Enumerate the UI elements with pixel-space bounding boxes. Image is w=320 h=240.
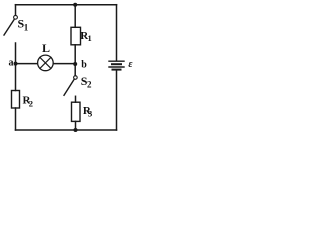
battery cell plate long top — [109, 60, 124, 62]
switch S1 pivot circle — [14, 15, 18, 19]
label L — [42, 41, 50, 55]
node b dot — [73, 62, 77, 66]
lamp L circle — [38, 55, 54, 71]
wire bottom — [16, 129, 117, 131]
wire top — [16, 4, 117, 6]
wire left middle (S1 contact to R2) — [15, 43, 17, 91]
label R3 — [83, 105, 92, 119]
resistor R3 — [72, 102, 81, 121]
svg-text:2: 2 — [87, 79, 92, 89]
svg-text:1: 1 — [88, 33, 92, 43]
wire horizontal lamp to node b — [54, 63, 76, 65]
wire right lower — [116, 71, 118, 131]
battery cell plate short thick upper — [112, 63, 121, 65]
wire R1 to node b to S2 — [74, 45, 76, 76]
label node a — [9, 57, 14, 68]
lamp L cross diagonal 1 — [40, 57, 51, 68]
junction dot top node — [73, 3, 77, 7]
wire R3 lower stub — [75, 121, 77, 130]
svg-text:L: L — [42, 41, 50, 55]
node a dot — [14, 62, 18, 66]
battery cell plate long lower — [109, 66, 124, 68]
wire S1 upper stub — [15, 5, 17, 16]
wire right upper — [116, 5, 118, 61]
battery cell plate short thick bottom — [113, 69, 121, 71]
junction dot bottom node — [74, 128, 78, 132]
label battery emf epsilon — [128, 59, 133, 70]
label S2 — [81, 74, 92, 90]
label node b — [81, 60, 87, 71]
resistor R2 — [12, 91, 20, 109]
svg-text:1: 1 — [24, 22, 29, 32]
wire horizontal a to lamp — [16, 63, 38, 65]
svg-text:a: a — [9, 57, 14, 68]
switch S2 pivot circle — [74, 76, 78, 80]
lamp L cross diagonal 2 — [40, 57, 51, 68]
wire R1 upper stub — [74, 5, 76, 28]
label R1 — [80, 30, 91, 43]
svg-text:3: 3 — [88, 109, 92, 119]
resistor R1 — [71, 27, 81, 45]
switch S1 blade — [4, 20, 14, 35]
wire left lower — [15, 108, 17, 130]
label R2 — [23, 94, 33, 108]
switch S2 blade — [64, 79, 74, 95]
svg-text:ε: ε — [128, 59, 133, 70]
svg-text:2: 2 — [29, 99, 33, 109]
wire R3 upper stub — [75, 96, 77, 102]
label S1 — [18, 17, 29, 33]
svg-text:b: b — [81, 60, 87, 71]
